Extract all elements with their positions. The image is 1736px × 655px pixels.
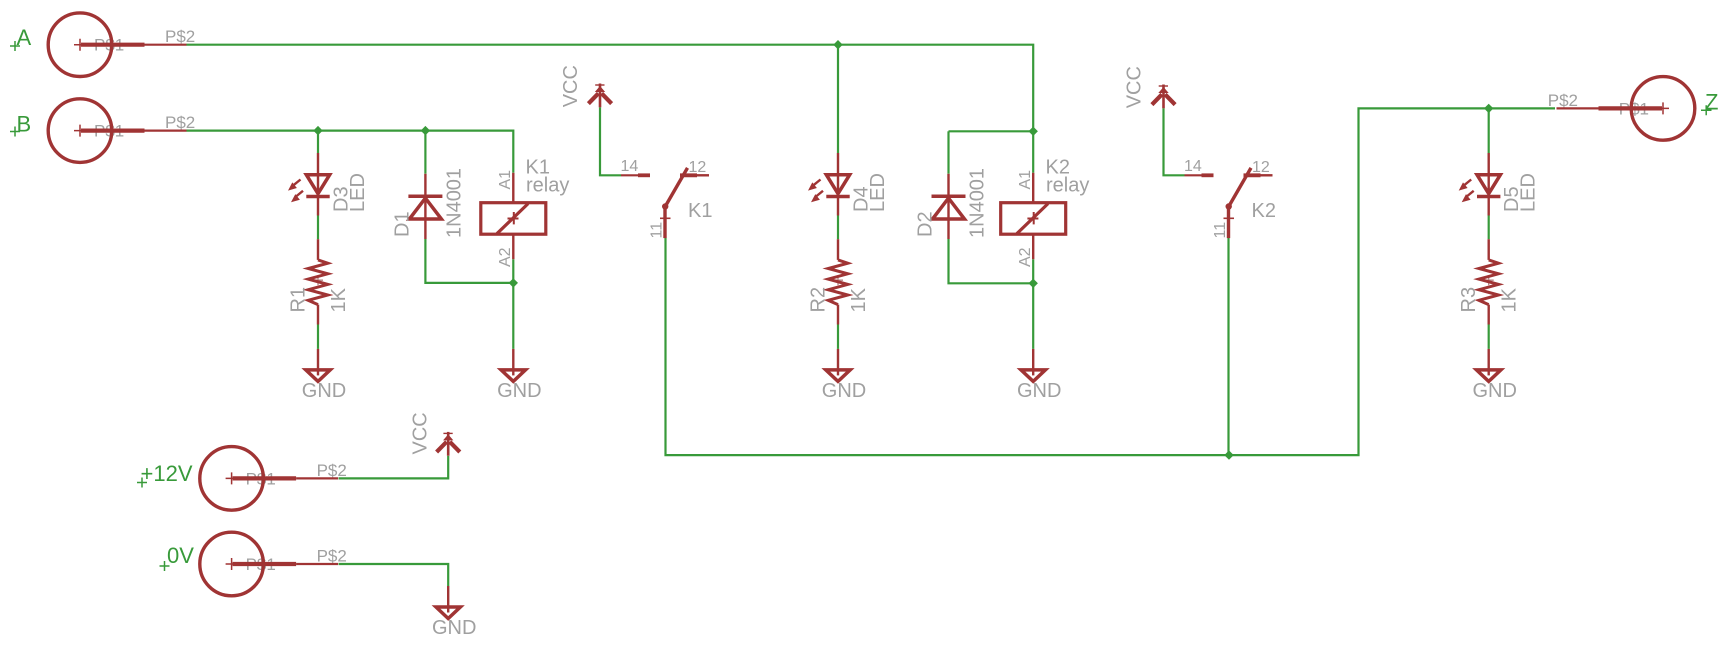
wire D1 bottom to A2 node	[425, 239, 513, 283]
relay contact switch K1	[621, 168, 709, 238]
svg-text:relay: relay	[526, 175, 569, 197]
svg-text:12: 12	[1252, 159, 1270, 176]
svg-text:LED: LED	[867, 173, 889, 212]
svg-text:A1: A1	[497, 170, 514, 190]
ground GND below R2	[826, 349, 850, 382]
ground GND below 0V	[436, 586, 460, 619]
junction net Z / switch K2	[1224, 450, 1233, 459]
ground GND below R3	[1477, 349, 1501, 382]
wire R3 to GND	[1488, 325, 1490, 349]
wire net Z from switch K1 pin 11	[666, 108, 1556, 455]
svg-text:VCC: VCC	[560, 65, 582, 107]
svg-text:A1: A1	[1017, 170, 1034, 190]
svg-text:GND: GND	[497, 380, 541, 402]
svg-text:14: 14	[621, 158, 639, 175]
svg-text:LED: LED	[347, 173, 369, 212]
net label A	[10, 25, 32, 51]
wire D5 cathode to R3	[1488, 216, 1490, 240]
svg-text:P$2: P$2	[165, 113, 195, 132]
wire K2 A2 to GND	[1032, 259, 1034, 349]
svg-text:P$2: P$2	[165, 27, 195, 46]
junction net A / D4	[833, 40, 842, 49]
svg-text:LED: LED	[1518, 173, 1540, 212]
connector pad Z	[1557, 77, 1695, 141]
junction K2 A2 node	[1029, 279, 1038, 288]
junction K1 A2 node	[509, 278, 518, 287]
diode D2	[932, 174, 966, 239]
LED D5	[1459, 153, 1501, 216]
connector pad B	[48, 99, 186, 163]
svg-text:GND: GND	[302, 380, 346, 402]
svg-text:Z: Z	[1705, 90, 1718, 115]
power VCC 3	[437, 432, 460, 456]
wire D4 cathode to R2	[837, 216, 839, 240]
connector pad +12V	[200, 447, 338, 511]
wire K2 A1 from net A	[1032, 131, 1034, 173]
net label +12V	[137, 461, 193, 488]
power VCC 1	[588, 84, 611, 108]
wire VCC to switch K1 pin 14	[600, 107, 621, 175]
wire 0V to GND	[339, 564, 449, 586]
wire D5 anode from net Z	[1488, 108, 1490, 153]
junction net A / K2 A1	[1029, 127, 1038, 136]
svg-text:1K: 1K	[328, 287, 350, 312]
svg-text:GND: GND	[1472, 380, 1516, 402]
svg-text:VCC: VCC	[1124, 66, 1146, 108]
svg-text:K1: K1	[688, 200, 712, 222]
svg-text:+12V: +12V	[141, 461, 193, 486]
svg-text:A2: A2	[497, 247, 514, 267]
net label Z	[1701, 90, 1718, 116]
svg-text:11: 11	[649, 222, 666, 239]
connector pad 0V	[200, 532, 338, 596]
wire D3 cathode to R1	[317, 216, 319, 240]
svg-text:GND: GND	[1017, 380, 1061, 402]
net label 0V	[160, 543, 195, 571]
svg-text:GND: GND	[822, 380, 866, 402]
wire K2 coil rail	[949, 130, 1034, 132]
junction net B / D1	[421, 126, 430, 135]
svg-text:GND: GND	[432, 617, 476, 639]
net label B	[10, 112, 31, 137]
svg-text:1K: 1K	[1499, 287, 1521, 312]
wire R2 to GND	[837, 325, 839, 349]
wire D1 top	[424, 131, 426, 174]
svg-text:A2: A2	[1017, 247, 1034, 267]
svg-text:1N4001: 1N4001	[444, 168, 466, 238]
wire +12V to VCC	[339, 456, 449, 479]
svg-text:P$2: P$2	[1548, 91, 1578, 110]
relay coil K1	[481, 173, 546, 259]
svg-text:relay: relay	[1046, 175, 1089, 197]
LED D4	[808, 153, 850, 216]
svg-text:1K: 1K	[848, 287, 870, 312]
resistor R3	[1479, 239, 1499, 324]
svg-text:D2: D2	[915, 211, 937, 237]
wire D2 bottom to A2 node	[949, 239, 1034, 283]
svg-text:0V: 0V	[167, 543, 194, 568]
resistor R1	[308, 239, 328, 324]
relay contact switch K2	[1185, 168, 1273, 238]
svg-text:R1: R1	[288, 287, 310, 313]
svg-text:14: 14	[1184, 158, 1202, 175]
svg-text:R3: R3	[1458, 287, 1480, 313]
connector pad A	[48, 13, 186, 77]
wire R1 to GND	[317, 325, 319, 349]
svg-text:P$2: P$2	[317, 547, 347, 566]
svg-text:K2: K2	[1252, 200, 1276, 222]
wire net A horizontal	[187, 45, 1034, 132]
resistor R2	[828, 239, 848, 324]
svg-text:VCC: VCC	[410, 412, 432, 454]
svg-text:B: B	[17, 112, 32, 137]
wire VCC to switch K2 pin 14	[1164, 108, 1185, 175]
svg-text:12: 12	[689, 159, 707, 176]
svg-text:R2: R2	[808, 287, 830, 313]
diode D1	[408, 174, 442, 239]
LED D3	[288, 153, 330, 216]
wire D3 anode drop	[317, 131, 319, 153]
svg-text:11: 11	[1212, 222, 1229, 239]
power VCC 2	[1152, 85, 1175, 109]
ground GND below R1	[306, 349, 330, 382]
svg-text:A: A	[17, 25, 32, 50]
ground GND below K2	[1021, 349, 1045, 382]
svg-text:1N4001: 1N4001	[967, 168, 989, 238]
wire net B horizontal	[187, 131, 514, 173]
relay coil K2	[1001, 173, 1066, 259]
wire D2 top	[947, 131, 949, 173]
svg-text:P$2: P$2	[317, 461, 347, 480]
junction net Z / D5	[1484, 104, 1493, 113]
wire K1 A2 to GND	[512, 259, 514, 349]
junction net B / D3	[313, 126, 322, 135]
wire net A branch to D4	[837, 45, 839, 153]
svg-text:D1: D1	[392, 211, 414, 237]
ground GND below K1	[501, 349, 525, 382]
wire switch K2 pin 11 drop	[1227, 238, 1229, 455]
